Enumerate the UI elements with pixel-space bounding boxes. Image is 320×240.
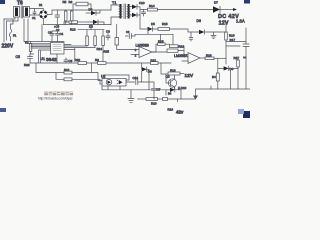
svg-text:3842: 3842 — [46, 57, 57, 63]
resistor R1 — [25, 41, 32, 55]
wire bus1 down right — [161, 63, 168, 74]
resistor R5 — [63, 0, 68, 25]
capacitor C6 — [64, 58, 73, 63]
resistor R18 top — [170, 45, 185, 55]
capacitor C9 — [126, 30, 136, 39]
svg-text:2: 2 — [135, 54, 137, 58]
resistor R26 — [205, 53, 226, 59]
svg-text:U1: U1 — [41, 57, 45, 61]
resistor R13 — [64, 21, 88, 32]
resistor R14 — [148, 4, 214, 11]
fuse F1 — [9, 24, 16, 41]
resistor R17 — [226, 38, 246, 46]
svg-text:C5: C5 — [16, 55, 20, 59]
svg-text:R1: R1 — [25, 41, 29, 45]
resistor R9 — [86, 30, 89, 46]
wire bus2 to opto — [36, 63, 102, 84]
resistor R3 inline — [95, 58, 106, 64]
resistor R15 top — [156, 39, 170, 45]
resistor R10 — [94, 30, 110, 54]
wire T6 to bridge — [30, 9, 44, 16]
capacitor C14 — [189, 32, 193, 41]
ground (12V rail) — [211, 32, 216, 39]
optocoupler U2 — [101, 75, 131, 87]
resistor R19 — [163, 92, 196, 112]
capacitor C13 — [131, 76, 142, 85]
transistor Q1 wires — [78, 25, 104, 30]
capacitor C5 — [16, 54, 34, 63]
transistor Q3 — [166, 74, 177, 90]
svg-text:B4: B4 — [168, 92, 172, 96]
diode D7 — [213, 1, 220, 13]
svg-text:R25: R25 — [104, 50, 110, 54]
resistor R20b — [138, 98, 163, 106]
svg-text:C7: C7 — [157, 88, 161, 92]
wire mid-right net — [193, 89, 198, 100]
svg-text:C3: C3 — [48, 31, 52, 35]
wire opto bottom bus — [102, 72, 170, 90]
wire main bus1 — [30, 59, 171, 63]
svg-text:R14: R14 — [149, 4, 155, 8]
capacitor C4 — [52, 31, 64, 42]
wire top rail to opamp — [135, 29, 173, 45]
wire mains to T6 — [4, 18, 18, 25]
svg-text:htip://bl.baidu.com/dydz: htip://bl.baidu.com/dydz — [38, 97, 73, 101]
MOSFET Q2 block — [115, 25, 131, 50]
ground (bottom) — [128, 90, 134, 103]
svg-text:C2: C2 — [56, 28, 60, 32]
bridge rectifier D1 — [39, 3, 48, 19]
svg-text:C8: C8 — [106, 30, 110, 34]
svg-text:C10: C10 — [139, 1, 145, 5]
wire opamp1 out — [152, 44, 156, 52]
capacitor C1 — [32, 9, 36, 21]
aux rail wire — [140, 15, 147, 29]
capacitor C7 — [142, 82, 161, 99]
resistor R4 right — [212, 58, 219, 89]
diode D4 — [86, 7, 100, 15]
resistor R28 — [24, 63, 30, 67]
op-amp U3B LM358 — [131, 44, 156, 58]
svg-text:D5: D5 — [151, 22, 155, 26]
svg-text:R28: R28 — [24, 63, 30, 67]
diode D6 — [197, 19, 227, 34]
svg-text:12V: 12V — [219, 21, 229, 27]
resistor R21 inline — [64, 68, 72, 74]
svg-text:D8: D8 — [148, 69, 152, 73]
svg-text:R5: R5 — [63, 0, 67, 4]
capacitor C8 — [106, 30, 110, 41]
svg-text:R16: R16 — [229, 34, 235, 38]
svg-text:F1: F1 — [13, 34, 17, 38]
svg-text:R13: R13 — [70, 28, 76, 32]
diode D6b right — [218, 66, 238, 71]
diode D3 — [88, 20, 104, 29]
U1 pin wires — [31, 45, 95, 64]
vertical wire from U1 pin — [74, 48, 76, 62]
svg-text:R19: R19 — [168, 108, 174, 112]
12V label — [219, 21, 229, 27]
svg-text:B4: B4 — [212, 75, 216, 79]
svg-text:D6: D6 — [197, 19, 201, 23]
svg-text:Z-D10: Z-D10 — [178, 86, 187, 90]
diode D5 — [148, 22, 159, 31]
svg-text:C9: C9 — [126, 30, 130, 34]
svg-text:D1: D1 — [39, 3, 43, 7]
snubber R7 C3 — [73, 2, 91, 10]
wire HT to U1 — [24, 19, 64, 43]
wire bridge output buses — [43, 10, 111, 25]
svg-text:R6: R6 — [69, 0, 73, 4]
wire secondary join — [140, 7, 147, 15]
zener D10 — [166, 86, 187, 99]
resistor R12 — [102, 30, 105, 62]
svg-text:C4: C4 — [60, 32, 64, 36]
svg-text:R15: R15 — [162, 22, 168, 26]
junction tick — [210, 86, 212, 89]
resistor R16 — [225, 24, 235, 58]
transformer T6 line filter — [14, 1, 30, 19]
capacitor C3 — [48, 31, 54, 42]
resistor R27 — [234, 56, 240, 68]
diode D9 — [130, 13, 141, 17]
svg-text:R24: R24 — [97, 47, 103, 51]
resistor R15b — [158, 22, 199, 32]
capacitor C10 — [139, 1, 146, 16]
capacitor C2 bulk — [54, 10, 60, 32]
svg-text:R27: R27 — [234, 56, 240, 60]
svg-text:C1: C1 — [32, 16, 36, 20]
resistor R22 inline — [151, 58, 159, 64]
resistor R6 — [69, 0, 74, 25]
42v label — [176, 110, 184, 115]
capacitor C11 output — [243, 28, 249, 58]
svg-text:+C5: +C5 — [54, 25, 60, 29]
svg-text:R20: R20 — [151, 102, 157, 106]
svg-text:42v: 42v — [176, 110, 184, 115]
svg-text:C6: C6 — [69, 59, 73, 63]
12V label 2 — [185, 73, 194, 79]
output DC 42V 1.8A — [218, 8, 245, 24]
resistor R18 bottom — [168, 68, 184, 75]
resistor R17b — [152, 49, 184, 52]
svg-text:220V: 220V — [2, 44, 14, 50]
resistor R23 inline — [64, 78, 72, 81]
op-amp U3A LM358 — [174, 53, 205, 64]
svg-text:D4: D4 — [89, 7, 93, 11]
diode D8 — [130, 5, 141, 10]
mains input 220V — [2, 19, 14, 50]
svg-text:12V: 12V — [185, 73, 194, 79]
wire right bottom bus — [196, 58, 250, 89]
svg-text:T6: T6 — [17, 1, 23, 7]
diode D8b — [142, 63, 152, 75]
svg-text:3: 3 — [135, 48, 137, 52]
svg-text:T1: T1 — [112, 1, 116, 5]
transformer T1 — [111, 1, 130, 25]
svg-text:LM358B: LM358B — [136, 44, 150, 48]
svg-text:D7: D7 — [214, 1, 218, 5]
IC U1 UC3842 — [41, 43, 65, 63]
svg-text:1.8A: 1.8A — [236, 19, 245, 24]
resistor R20 inline — [75, 58, 87, 64]
